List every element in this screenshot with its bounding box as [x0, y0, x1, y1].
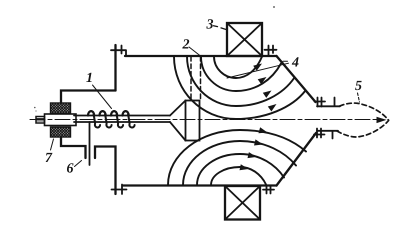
coil (1)	[88, 111, 135, 127]
label 3	[206, 19, 213, 28]
lead 6	[89, 122, 91, 165]
label 5	[355, 81, 361, 90]
scan speck b	[34, 107, 36, 109]
label 4	[292, 57, 299, 66]
top wall	[125, 55, 277, 57]
exit channel top lip	[317, 98, 340, 107]
top-left pipe	[114, 45, 116, 91]
nipple	[36, 117, 45, 124]
scan speck c	[35, 110, 36, 111]
flange top-right	[265, 46, 277, 57]
shaft	[74, 116, 170, 123]
leader 6	[75, 161, 82, 167]
bottom diagonal wall	[277, 133, 317, 186]
leader 4	[227, 61, 289, 78]
leader 1	[93, 85, 112, 109]
block upper hatch (7)	[51, 103, 71, 114]
cylinder holder	[45, 114, 77, 126]
block lower hatch (7)	[51, 127, 71, 137]
dashed line 2a	[190, 57, 192, 101]
label 2	[182, 39, 189, 48]
leader 2	[189, 47, 201, 56]
top diagonal wall	[277, 56, 316, 102]
scan speck a	[273, 6, 275, 8]
label 7	[46, 153, 53, 162]
flange bottom-left	[112, 185, 127, 195]
cathode tip block	[186, 101, 200, 141]
flange exit-top	[315, 98, 326, 107]
top mid shelf	[61, 91, 116, 104]
label 1	[86, 73, 91, 82]
centerline	[30, 119, 378, 121]
magnet box bottom	[225, 186, 260, 220]
centerline arrow	[377, 117, 387, 123]
bottom wall	[123, 184, 277, 186]
bottom-left shelf right	[95, 147, 116, 195]
plume (5) dashed	[340, 103, 389, 120]
field arcs bottom	[168, 130, 306, 185]
label 6	[67, 163, 74, 172]
magnet box top (3)	[227, 23, 262, 56]
leader 3	[214, 26, 227, 30]
arc arrows top	[253, 64, 276, 112]
dashed line 2b	[200, 57, 202, 101]
flange exit-bottom	[314, 129, 325, 138]
exit channel bottom lip	[317, 131, 338, 139]
arc arrows bottom	[240, 127, 268, 170]
field arcs top (4)	[174, 57, 306, 120]
flange top-left	[111, 46, 126, 57]
leader 5 dashed	[358, 93, 360, 102]
cone	[170, 101, 186, 141]
flange bottom-right	[263, 186, 274, 194]
leader 7	[51, 139, 54, 150]
bottom-left shelf left	[61, 137, 86, 158]
